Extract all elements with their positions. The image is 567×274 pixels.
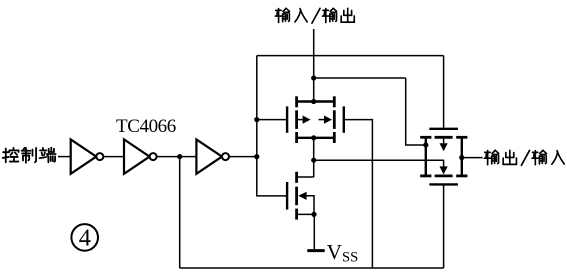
svg-text:4: 4 [79, 225, 91, 252]
svg-text:TC4066: TC4066 [116, 116, 176, 137]
